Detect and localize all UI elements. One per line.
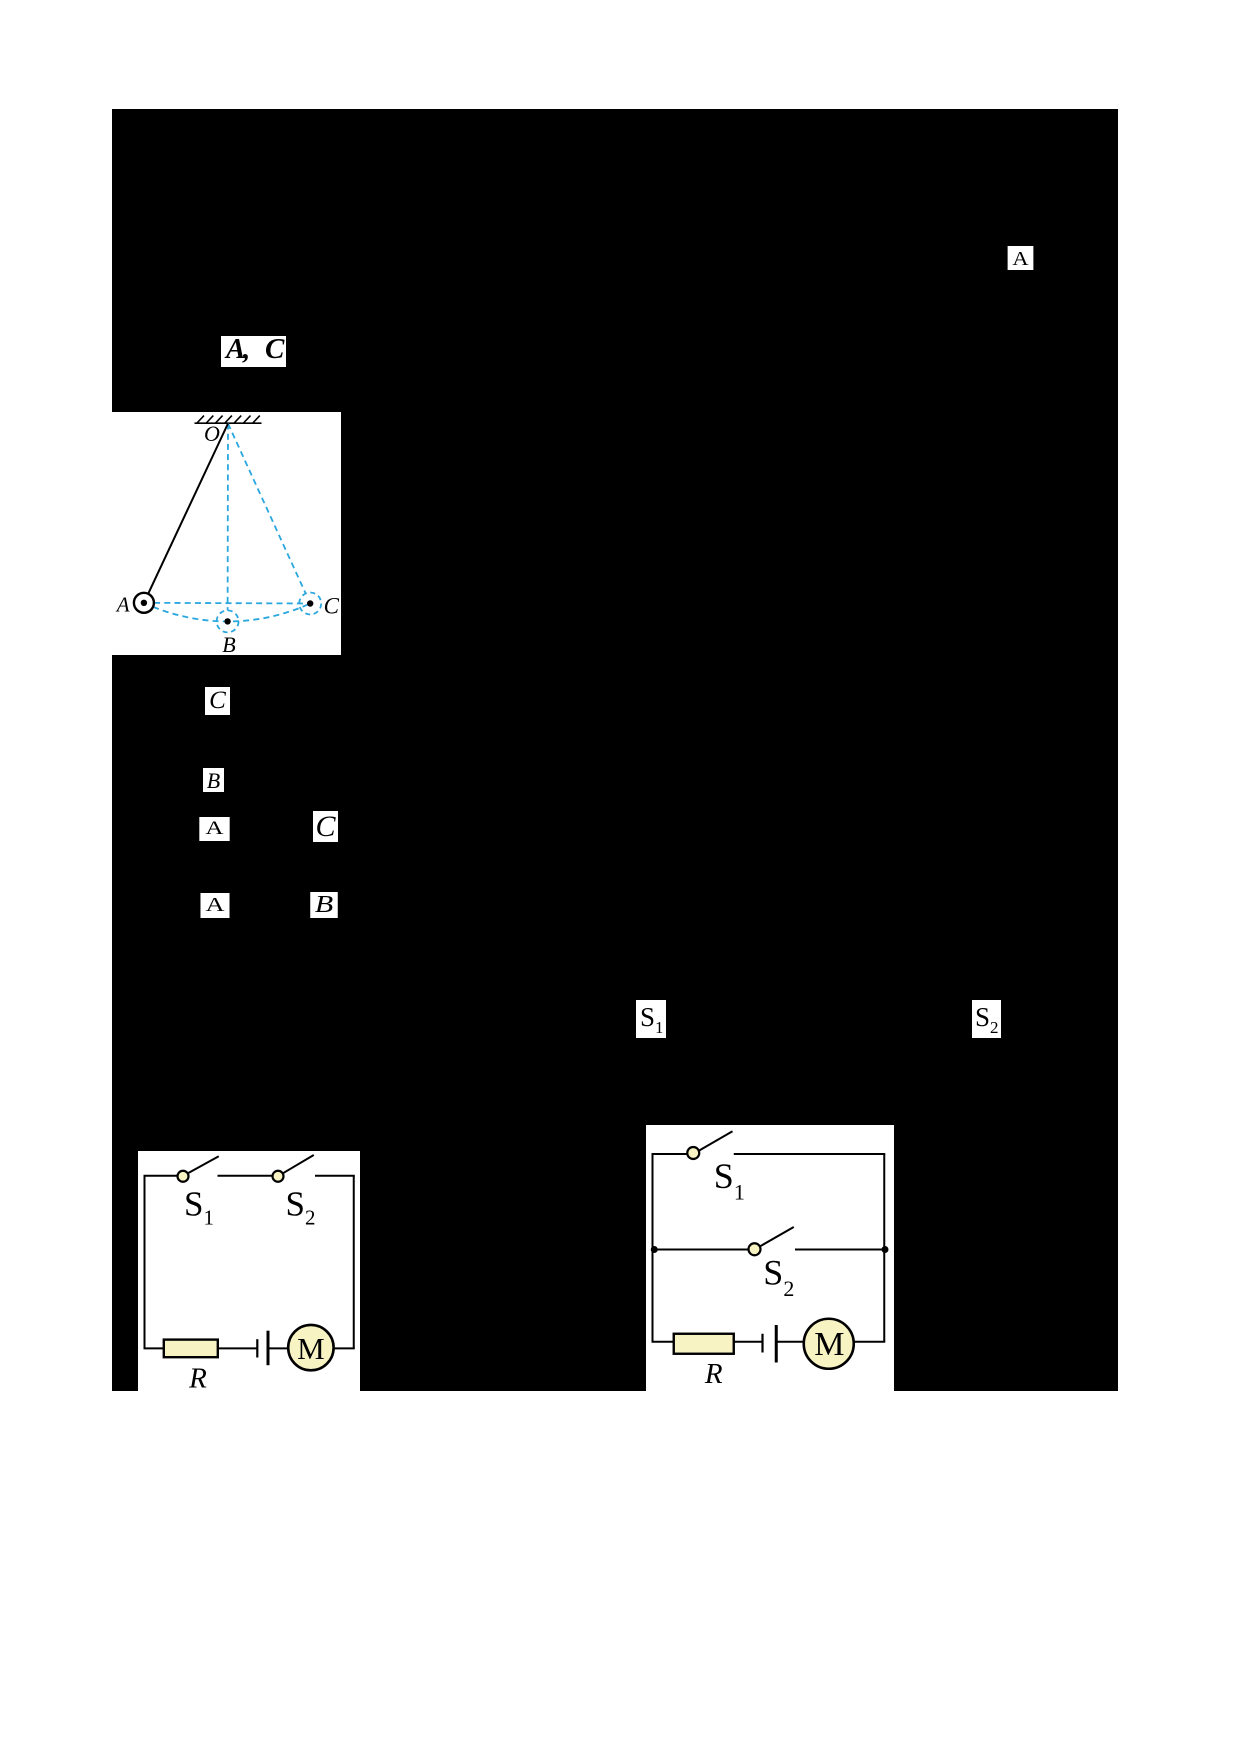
answer box C — [205, 687, 230, 715]
answer box A (top right) — [1008, 246, 1034, 270]
switch S2 — [759, 1227, 794, 1247]
wire right vertical — [883, 1154, 885, 1342]
ball A — [134, 593, 154, 613]
answer box C (row3) — [313, 811, 338, 842]
answer box S1 — [636, 1000, 666, 1038]
answer box S2 — [972, 1000, 1001, 1038]
wire between switches — [218, 1175, 273, 1177]
ball C (dashed) — [299, 593, 321, 615]
wire top right segment — [734, 1153, 886, 1155]
black redacted text block — [112, 109, 1118, 1391]
junction dot right — [882, 1246, 889, 1253]
battery short plate — [761, 1334, 763, 1353]
svg-text:R: R — [188, 1362, 207, 1390]
ball B (dashed) — [217, 610, 239, 632]
answer box B (row4) — [310, 892, 338, 918]
answer box A (row4) — [200, 893, 229, 918]
dashed swing arc A-B-C — [144, 603, 310, 622]
svg-text:S2: S2 — [286, 1185, 316, 1230]
answer box A (row3) — [199, 817, 229, 841]
junction dot left — [651, 1246, 658, 1253]
motor M — [288, 1325, 333, 1370]
wire bottom left segment — [144, 1347, 166, 1349]
ceiling hatch — [195, 416, 262, 424]
wire top left segment — [652, 1153, 689, 1155]
wire top right segment — [315, 1175, 355, 1177]
svg-text:S1: S1 — [714, 1156, 745, 1205]
switch S1 — [698, 1131, 733, 1151]
switch S1 — [187, 1156, 219, 1174]
svg-text:A: A — [115, 593, 130, 617]
wire middle right segment — [795, 1249, 884, 1251]
pendulum rod O-A — [148, 424, 228, 594]
wire bottom left segment — [652, 1341, 676, 1343]
svg-text:S1: S1 — [184, 1185, 214, 1230]
wire battery to motor — [268, 1347, 289, 1349]
svg-text:M: M — [814, 1326, 844, 1363]
pendulum figure — [112, 412, 341, 655]
answer box B — [203, 768, 224, 792]
wire middle left segment — [653, 1249, 750, 1251]
svg-text:M: M — [297, 1331, 325, 1366]
wire left vertical — [652, 1154, 654, 1342]
wire motor to right — [854, 1341, 886, 1343]
wire resistor to battery — [734, 1341, 763, 1343]
wire motor to right — [334, 1347, 355, 1349]
svg-text:B: B — [222, 632, 235, 655]
wire resistor to battery — [218, 1347, 257, 1349]
circuit figure 2 (parallel switches) — [646, 1125, 894, 1391]
wire top left segment — [144, 1175, 179, 1177]
battery long plate — [775, 1325, 778, 1363]
svg-text:S2: S2 — [763, 1252, 794, 1301]
wire battery to motor — [776, 1341, 804, 1343]
answer box A、C — [221, 336, 286, 367]
switch S2 — [282, 1155, 314, 1174]
dashed horizontal line A-C — [144, 602, 310, 605]
circuit figure 1 (series switches) — [138, 1151, 360, 1391]
battery short plate — [256, 1339, 258, 1357]
svg-text:C: C — [324, 594, 340, 619]
dashed line O-C — [228, 424, 306, 594]
motor M — [804, 1319, 854, 1369]
svg-text:O: O — [204, 421, 220, 446]
svg-text:R: R — [704, 1358, 723, 1390]
wire left vertical — [144, 1176, 146, 1349]
dashed vertical line O-B — [227, 424, 229, 611]
battery long plate — [267, 1331, 270, 1366]
resistor R — [164, 1340, 218, 1358]
wire right vertical — [353, 1176, 355, 1349]
resistor R — [674, 1334, 734, 1354]
